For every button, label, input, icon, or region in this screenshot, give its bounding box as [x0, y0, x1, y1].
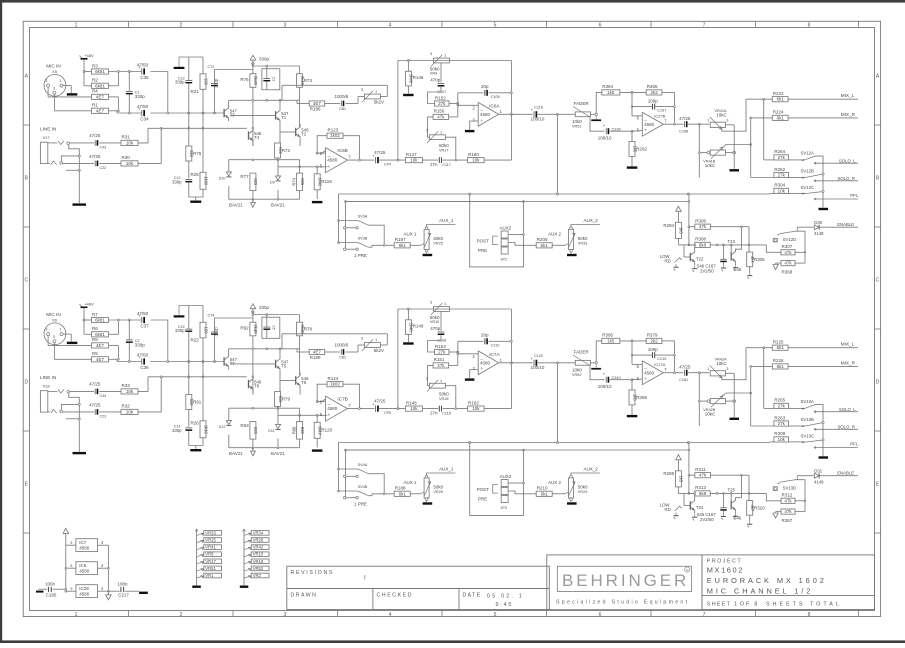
- svg-text:47/25: 47/25: [89, 154, 101, 159]
- svg-text:10k: 10k: [126, 140, 134, 145]
- power +15V: [676, 206, 682, 211]
- resistor R305: [747, 252, 753, 267]
- wire: [789, 159, 803, 161]
- wire: [788, 98, 858, 100]
- wire: [47, 87, 49, 97]
- resistor R262: [774, 172, 789, 177]
- wire: [508, 491, 536, 494]
- svg-text:4580: 4580: [644, 122, 655, 127]
- resistor R4: [92, 94, 109, 99]
- svg-text:1000/6: 1000/6: [335, 343, 349, 348]
- svg-text:C195: C195: [46, 592, 57, 597]
- wire: [138, 128, 161, 163]
- wire: [609, 379, 632, 381]
- svg-text:FADER: FADER: [574, 349, 590, 354]
- wire: [343, 136, 359, 160]
- ground: [38, 588, 41, 590]
- ground: [595, 364, 597, 368]
- svg-text:1 PRE: 1 PRE: [354, 253, 367, 258]
- svg-text:R146: R146: [413, 75, 424, 80]
- wire: [428, 365, 434, 385]
- wire: [47, 336, 49, 346]
- svg-text:C117: C117: [442, 163, 451, 167]
- wire: [84, 319, 92, 321]
- wire: [449, 364, 458, 366]
- resistor R33: [121, 389, 138, 394]
- wire: [631, 405, 633, 415]
- wire: [62, 411, 94, 413]
- wire: [746, 98, 772, 100]
- wire: [325, 351, 340, 353]
- net label PFL: [814, 198, 816, 200]
- wire: [252, 309, 254, 323]
- ground: [465, 378, 475, 380]
- svg-text:VR26: VR26: [253, 538, 264, 543]
- svg-text:R76: R76: [240, 77, 249, 82]
- wire: [83, 60, 85, 86]
- svg-text:20p: 20p: [481, 332, 489, 337]
- wire: [61, 156, 78, 161]
- wire: [662, 91, 675, 93]
- svg-text:100n: 100n: [45, 581, 56, 586]
- svg-text:SV3A: SV3A: [358, 215, 368, 219]
- ground: [190, 201, 201, 203]
- svg-text:6k1: 6k1: [777, 97, 785, 102]
- wire: [346, 201, 689, 203]
- wire: [440, 311, 442, 331]
- capacitor C14: [185, 427, 192, 429]
- wire: [789, 425, 803, 427]
- wire: [299, 408, 301, 421]
- svg-text:R151: R151: [434, 357, 445, 362]
- svg-text:R395: R395: [602, 333, 613, 338]
- svg-text:SOLO_L: SOLO_L: [839, 158, 856, 163]
- svg-text:C119: C119: [442, 412, 451, 416]
- svg-text:VR51: VR51: [572, 125, 582, 129]
- wire: [380, 96, 387, 98]
- ground: [312, 449, 323, 451]
- svg-text:5: 5: [494, 23, 497, 29]
- resistor R150: [433, 114, 449, 119]
- svg-text:8: 8: [71, 564, 73, 568]
- resistor R5: [92, 357, 109, 362]
- wire: [215, 70, 253, 84]
- svg-text:4580: 4580: [480, 112, 491, 117]
- wire: [694, 245, 696, 249]
- svg-text:AUX_1: AUX_1: [439, 467, 454, 472]
- trimmer VR10: [434, 307, 450, 312]
- wire: [590, 117, 604, 131]
- svg-text:IC6B: IC6B: [337, 148, 347, 153]
- wire: [138, 377, 148, 392]
- svg-text:3: 3: [726, 117, 728, 122]
- resistor R312: [781, 498, 795, 503]
- trimmer VR17: [429, 135, 445, 140]
- connector body X18: [40, 391, 47, 412]
- net label SOLO_L: [814, 411, 816, 413]
- svg-text:SV13D: SV13D: [783, 486, 797, 491]
- svg-text:4E7: 4E7: [313, 101, 322, 106]
- svg-text:330p: 330p: [259, 305, 270, 310]
- wire: [677, 211, 679, 222]
- ground: [730, 169, 740, 171]
- svg-text:47/25: 47/25: [679, 365, 691, 370]
- wire: [266, 66, 268, 79]
- trimmer VR9: [204, 552, 222, 557]
- resistor R367: [781, 509, 795, 514]
- wire: [590, 362, 595, 364]
- wire: [797, 475, 813, 477]
- svg-text:3: 3: [284, 23, 287, 29]
- svg-text:D12: D12: [219, 425, 226, 429]
- trimmer VR52: [251, 566, 269, 571]
- wire: [280, 380, 296, 382]
- svg-text:6k81: 6k81: [95, 332, 105, 337]
- capacitor C44: [94, 389, 96, 395]
- svg-text:4E7: 4E7: [96, 108, 105, 113]
- svg-text:100/10: 100/10: [531, 365, 545, 370]
- svg-text:6k1: 6k1: [541, 243, 549, 248]
- resistor R21: [200, 74, 206, 90]
- svg-text:R308: R308: [695, 237, 706, 242]
- svg-text:6k8: 6k8: [699, 491, 707, 496]
- svg-text:100n: 100n: [117, 581, 128, 586]
- wire: [299, 124, 301, 127]
- op-amp IC6B: [325, 148, 347, 173]
- svg-text:T2: T2: [301, 132, 307, 137]
- logo block BEHRINGER: [547, 555, 702, 610]
- wire: [445, 137, 455, 160]
- svg-text:C72: C72: [208, 65, 215, 69]
- svg-text:C35: C35: [140, 75, 149, 80]
- svg-text:1: 1: [59, 78, 61, 83]
- wire: [368, 495, 372, 497]
- ground: [694, 514, 696, 517]
- svg-text:825: 825: [253, 427, 258, 435]
- svg-text:2: 2: [180, 612, 183, 618]
- op-amp: [642, 112, 663, 136]
- wire: [746, 347, 772, 349]
- svg-text:VR2: VR2: [253, 573, 262, 578]
- svg-text:27k: 27k: [778, 155, 786, 160]
- ground: [730, 418, 740, 420]
- svg-text:47k: 47k: [699, 473, 707, 478]
- ground: [567, 254, 577, 256]
- svg-text:2V2/50: 2V2/50: [700, 517, 714, 522]
- svg-text:R74: R74: [292, 177, 297, 185]
- resistor R1: [92, 108, 109, 113]
- svg-text:1k5: 1k5: [607, 338, 615, 343]
- trimmer VR34: [251, 531, 269, 536]
- wire: [689, 474, 695, 476]
- svg-text:1: 1: [440, 378, 442, 383]
- svg-text:47k: 47k: [784, 250, 792, 255]
- wire: [726, 372, 735, 374]
- svg-text:100/10: 100/10: [598, 384, 612, 389]
- page edge bars: [0, 0, 905, 3]
- jack ring contact: [51, 161, 57, 165]
- wire: [410, 244, 421, 246]
- svg-text:BEHRINGER: BEHRINGER: [562, 571, 689, 590]
- svg-text:C37: C37: [140, 324, 149, 329]
- wire: [189, 183, 196, 201]
- svg-text:T4: T4: [254, 135, 260, 140]
- svg-text:100/10: 100/10: [531, 117, 545, 122]
- svg-text:IC7: IC7: [79, 540, 87, 545]
- wire: [188, 306, 190, 330]
- wire: [277, 160, 279, 176]
- svg-text:AUX_1: AUX_1: [439, 218, 454, 223]
- wire: [508, 482, 523, 484]
- svg-text:POST: POST: [477, 239, 490, 244]
- svg-text:AUX_2: AUX_2: [584, 218, 599, 223]
- ground: [73, 203, 87, 205]
- svg-text:VR33: VR33: [205, 530, 216, 535]
- ground: [749, 521, 751, 524]
- svg-text:4: 4: [389, 23, 392, 29]
- capacitor C3: [262, 69, 280, 90]
- svg-text:2: 2: [180, 23, 183, 29]
- svg-text:VR42: VR42: [253, 545, 264, 550]
- svg-text:T5: T5: [281, 364, 287, 369]
- connector body X17: [40, 142, 47, 163]
- wire: [252, 439, 254, 448]
- wire: [299, 373, 301, 376]
- resistor R92: [250, 322, 256, 336]
- svg-text:6k81: 6k81: [95, 318, 105, 323]
- svg-text:50k0: 50k0: [578, 485, 588, 490]
- wire: [694, 493, 696, 497]
- svg-text:R147: R147: [406, 152, 417, 157]
- svg-text:VR24: VR24: [578, 490, 588, 494]
- svg-text:R379: R379: [647, 333, 658, 338]
- svg-text:100/10: 100/10: [598, 135, 612, 140]
- capacitor C118: [533, 111, 535, 117]
- svg-text:BAV21: BAV21: [229, 451, 243, 456]
- resistor R6: [92, 332, 109, 337]
- wire: [253, 65, 300, 67]
- resistor R310: [747, 501, 753, 516]
- svg-text:SOLO_R: SOLO_R: [838, 176, 855, 181]
- resistor R304: [774, 188, 789, 193]
- wire: [789, 192, 803, 194]
- svg-text:T6: T6: [301, 380, 307, 385]
- node bus2: [148, 127, 247, 129]
- svg-text:4E7: 4E7: [313, 350, 322, 355]
- wire: [723, 393, 751, 396]
- wire: [723, 493, 725, 507]
- svg-text:R189: R189: [310, 355, 321, 360]
- svg-text:SV12D: SV12D: [783, 237, 797, 242]
- svg-text:X6: X6: [52, 318, 58, 323]
- wire: [795, 500, 805, 502]
- wire: [428, 87, 441, 104]
- svg-text:4580: 4580: [79, 592, 90, 597]
- svg-text:3: 3: [53, 334, 55, 339]
- svg-text:3: 3: [426, 376, 428, 381]
- wire collector rail: [229, 99, 300, 101]
- wire: [84, 71, 92, 73]
- ground: [567, 502, 577, 504]
- svg-text:10k: 10k: [410, 406, 418, 411]
- svg-text:R93: R93: [240, 423, 249, 428]
- resistor R2: [92, 83, 109, 88]
- resistor R187: [394, 243, 410, 248]
- svg-text:R263: R263: [774, 415, 785, 420]
- wire: [470, 370, 479, 379]
- svg-text:R226: R226: [773, 358, 784, 363]
- wire: [368, 246, 372, 248]
- svg-text:1k5: 1k5: [679, 227, 684, 234]
- wire emitter rail: [229, 159, 300, 161]
- wire: [70, 142, 95, 144]
- wire: [228, 408, 230, 420]
- svg-text:470p: 470p: [430, 326, 441, 331]
- resistor R146: [405, 71, 411, 86]
- ground: [312, 201, 323, 203]
- svg-text:9:45: 9:45: [496, 602, 514, 608]
- op-amp supply IC29: [76, 585, 98, 598]
- svg-text:D: D: [24, 379, 28, 385]
- wire: [677, 487, 679, 494]
- wire: [470, 121, 479, 130]
- transistor T1: [275, 111, 277, 119]
- svg-text:10kC: 10kC: [705, 163, 716, 168]
- svg-text:150: 150: [203, 78, 208, 86]
- wire: [48, 390, 58, 392]
- trimmer VR42: [251, 545, 269, 550]
- capacitor C108: [438, 331, 445, 333]
- net label SOLO_R: [814, 180, 816, 182]
- trimmer VR18: [429, 383, 445, 388]
- svg-text:10k: 10k: [778, 188, 786, 193]
- svg-text:VR33: VR33: [578, 242, 588, 246]
- wire: [325, 103, 340, 105]
- svg-text:R21: R21: [191, 89, 200, 94]
- resistor R120: [314, 422, 320, 438]
- svg-text:R26: R26: [191, 421, 200, 426]
- svg-text:Specialized Studio Equipment: Specialized Studio Equipment: [556, 599, 689, 605]
- svg-text:6k1: 6k1: [777, 345, 785, 350]
- wire: [109, 319, 142, 321]
- svg-text:R222: R222: [773, 91, 784, 96]
- wire: [788, 347, 858, 349]
- wire: [470, 194, 524, 267]
- svg-text:R396: R396: [636, 395, 647, 400]
- power -15V: [773, 265, 779, 270]
- trimmer VR9: [434, 58, 450, 63]
- svg-text:6k1: 6k1: [777, 364, 785, 369]
- svg-text:5: 5: [494, 612, 497, 618]
- trimmer stack rail: [243, 530, 245, 586]
- transistor: [730, 252, 732, 260]
- wire: [280, 131, 296, 133]
- resistor R224: [772, 115, 788, 120]
- svg-text:JP3: JP3: [501, 506, 508, 510]
- trimmer VR1: [204, 573, 222, 578]
- capacitor C12: [185, 178, 192, 180]
- svg-text:BAV21: BAV21: [271, 451, 285, 456]
- svg-text:3: 3: [430, 51, 432, 56]
- svg-text:3: 3: [426, 128, 428, 133]
- wire: [252, 336, 254, 395]
- wire: [788, 365, 858, 367]
- transistor T7: [223, 357, 225, 365]
- wire: [229, 447, 300, 449]
- pan pot VR42B: [710, 399, 725, 404]
- wire: [748, 475, 750, 500]
- wire: [252, 87, 254, 146]
- svg-text:C: C: [24, 277, 28, 283]
- capacitor C22: [94, 161, 96, 167]
- ground: [423, 254, 433, 256]
- svg-text:1: 1: [59, 326, 61, 331]
- svg-text:47/50: 47/50: [137, 352, 149, 357]
- capacitor C117: [438, 157, 440, 163]
- resistor R123: [327, 133, 343, 138]
- svg-text:+48V: +48V: [84, 302, 94, 307]
- svg-text:3: 3: [361, 335, 363, 340]
- resistor R78: [297, 322, 303, 336]
- wire: [252, 144, 254, 147]
- wire: [763, 348, 765, 409]
- svg-text:SV4B: SV4B: [358, 485, 368, 489]
- wire: [299, 87, 301, 126]
- wire: [484, 159, 511, 161]
- svg-text:CHECKED: CHECKED: [377, 593, 414, 599]
- svg-text:C74: C74: [208, 314, 215, 318]
- wire: [253, 314, 300, 316]
- svg-text:+: +: [328, 164, 331, 169]
- svg-text:2k40: 2k40: [253, 325, 258, 335]
- svg-text:R310: R310: [754, 505, 765, 510]
- ground: [192, 586, 201, 588]
- svg-text:R149: R149: [413, 324, 424, 329]
- resistor R91: [186, 395, 192, 410]
- power +15V: [63, 528, 69, 533]
- wire: [449, 351, 458, 353]
- svg-text:VR1: VR1: [205, 573, 214, 578]
- svg-text:MIX_R: MIX_R: [841, 360, 856, 365]
- svg-text:R79: R79: [282, 396, 291, 401]
- wire: [662, 340, 675, 342]
- wire: [609, 130, 632, 132]
- capacitor C181: [684, 370, 686, 376]
- wire: [48, 162, 50, 164]
- trimmer VR2: [251, 573, 269, 578]
- wire C35 output loop: [151, 320, 168, 362]
- wire: [347, 408, 374, 410]
- svg-text:47k: 47k: [437, 363, 445, 368]
- svg-text:VR52: VR52: [253, 566, 264, 571]
- resistor R88: [297, 422, 303, 440]
- svg-text:ENABLE: ENABLE: [837, 471, 854, 476]
- wire: [499, 113, 533, 115]
- svg-text:47/50: 47/50: [137, 104, 149, 109]
- svg-text:CB1: CB1: [339, 107, 346, 111]
- wire: [789, 177, 803, 179]
- wire: [407, 61, 409, 72]
- svg-text:10k: 10k: [410, 158, 418, 163]
- resistor R189: [309, 349, 325, 354]
- svg-text:SOLO_L: SOLO_L: [839, 407, 856, 412]
- svg-text:+48V: +48V: [84, 53, 94, 58]
- svg-text:AUX 1: AUX 1: [404, 232, 418, 237]
- svg-text:R78: R78: [304, 326, 313, 331]
- wire: [83, 309, 85, 335]
- svg-text:_: _: [327, 400, 331, 405]
- wire: [179, 56, 203, 58]
